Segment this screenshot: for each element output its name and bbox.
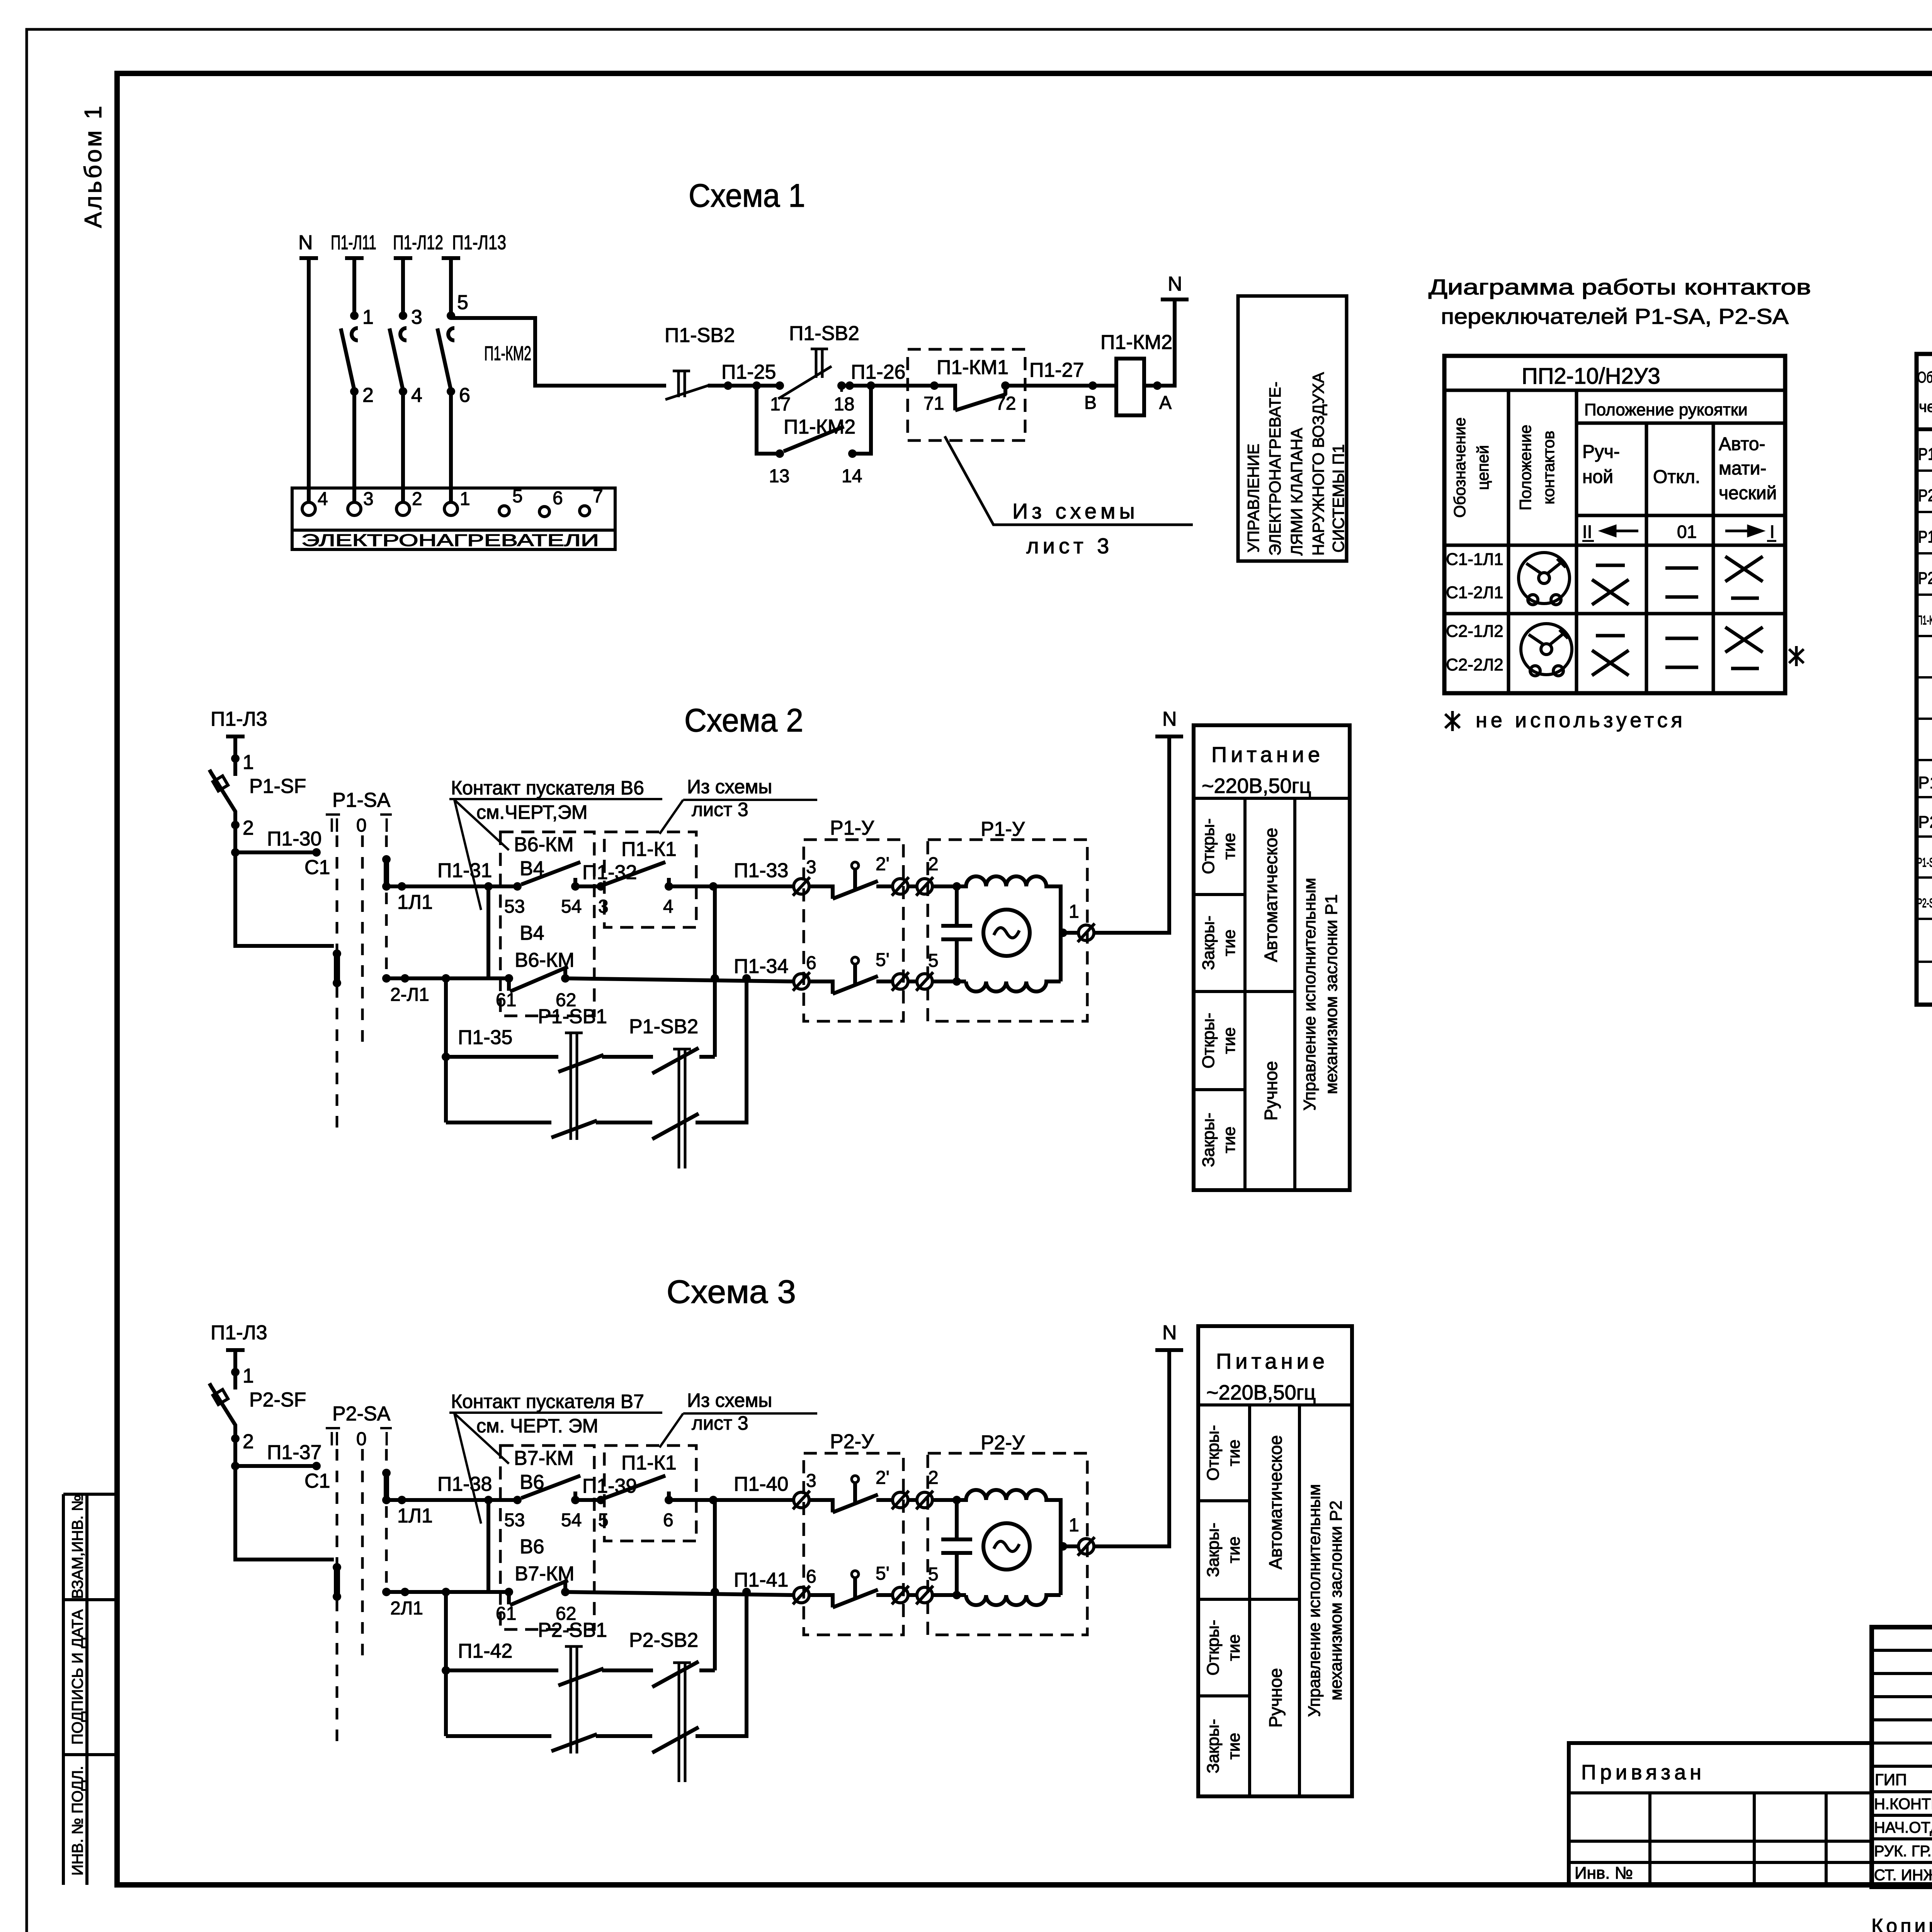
- svg-text:Р1-SA: Р1-SA: [1918, 445, 1932, 464]
- svg-text:A: A: [1159, 393, 1172, 413]
- dashed box П1-КМ1: [908, 349, 1025, 440]
- svg-text:6: 6: [806, 953, 816, 973]
- svg-text:1: 1: [460, 489, 470, 509]
- svg-text:В6-КМ: В6-КМ: [514, 833, 574, 856]
- svg-text:6: 6: [806, 1566, 816, 1587]
- svg-text:Привязан: Привязан: [1581, 1761, 1705, 1784]
- svg-text:лист 3: лист 3: [692, 1412, 748, 1434]
- svg-text:N: N: [298, 231, 313, 254]
- feeder П1-Л13 wire: [442, 258, 460, 316]
- svg-text:тие: тие: [1220, 1027, 1239, 1054]
- svg-text:Автоматическое: Автоматическое: [1265, 1435, 1286, 1570]
- svg-text:ПОДПИСЬ И ДАТА: ПОДПИСЬ И ДАТА: [69, 1609, 86, 1745]
- svg-text:Из схемы: Из схемы: [687, 776, 772, 798]
- svg-text:лист 3: лист 3: [1026, 534, 1113, 558]
- svg-text:13: 13: [769, 466, 789, 486]
- motor circle: [983, 910, 1030, 956]
- svg-text:3: 3: [411, 306, 422, 328]
- svg-text:Закры-: Закры-: [1204, 1719, 1223, 1773]
- svg-text:РУК. ГР.: РУК. ГР.: [1874, 1843, 1932, 1860]
- svg-text:2': 2': [876, 854, 889, 874]
- svg-text:Р2-У: Р2-У: [830, 1430, 874, 1453]
- svg-text:П1-Л3: П1-Л3: [211, 1321, 267, 1344]
- svg-text:17: 17: [770, 394, 791, 415]
- wire coil to N riser: [1144, 299, 1189, 386]
- привязан box: [1569, 1743, 1872, 1885]
- feeder terminal N top bar: [299, 258, 318, 502]
- svg-text:ГИП: ГИП: [1875, 1770, 1907, 1789]
- svg-text:P2-SB1,SB2: P2-SB1,SB2: [1917, 896, 1932, 910]
- svg-text:П1-33: П1-33: [734, 859, 788, 882]
- svg-text:1: 1: [1069, 901, 1079, 922]
- svg-text:П1-25: П1-25: [721, 361, 776, 383]
- svg-text:П1-38: П1-38: [437, 1473, 492, 1495]
- svg-text:В6: В6: [520, 1471, 544, 1493]
- limit pin circle lower: [852, 957, 859, 964]
- П1-КМ1 contact 71-72: [934, 386, 1006, 410]
- svg-text:П1-КМ2: П1-КМ2: [484, 342, 531, 365]
- wire ⊘1 to N riser: [1094, 736, 1183, 933]
- svg-text:П1-31: П1-31: [437, 859, 492, 882]
- svg-text:Схема 1: Схема 1: [689, 177, 805, 214]
- svg-text:В6-КМ: В6-КМ: [515, 949, 575, 971]
- svg-text:ИНВ. № ПОДЛ.: ИНВ. № ПОДЛ.: [69, 1766, 86, 1876]
- svg-text:Руч-: Руч-: [1582, 442, 1620, 462]
- svg-text:1: 1: [1069, 1515, 1079, 1536]
- contact В4 53-54: [521, 862, 580, 886]
- wire ⊘5' to ⊘5: [908, 980, 917, 983]
- svg-text:I: I: [384, 1429, 389, 1449]
- svg-text:Р2-SF: Р2-SF: [1918, 569, 1932, 588]
- svg-text:Копировал Завьялова: Копировал Завьялова: [1871, 1915, 1932, 1932]
- svg-text:цепей: цепей: [1474, 445, 1492, 490]
- svg-text:механизмом заслонки Р2: механизмом заслонки Р2: [1327, 1500, 1345, 1700]
- lower limit contact: [809, 964, 893, 994]
- svg-text:Питание: Питание: [1211, 742, 1324, 767]
- signature table grid: [1872, 1627, 1932, 1887]
- svg-text:Р1-У: Р1-У: [1918, 773, 1932, 792]
- svg-text:P2-SF: P2-SF: [249, 1389, 306, 1411]
- svg-text:Обозначение: Обозначение: [1451, 417, 1469, 518]
- svg-text:тие: тие: [1225, 1733, 1243, 1759]
- svg-text:~220В,50гц: ~220В,50гц: [1206, 1381, 1316, 1404]
- coil П1-КМ2: [1116, 359, 1144, 415]
- svg-text:П1-К1: П1-К1: [621, 1452, 677, 1474]
- svg-text:61: 61: [496, 1604, 516, 1624]
- breaker contact QF pole1: [341, 328, 358, 390]
- svg-text:2: 2: [928, 1468, 939, 1488]
- svg-text:С1-1Л1: С1-1Л1: [1446, 550, 1503, 569]
- svg-text:62: 62: [556, 990, 576, 1010]
- svg-text:Альбом 1: Альбом 1: [80, 104, 107, 228]
- svg-text:Откры-: Откры-: [1199, 818, 1218, 874]
- svg-text:P1-SB1,SB2: P1-SB1,SB2: [1917, 855, 1932, 869]
- svg-text:см. ЧЕРТ. ЭМ: см. ЧЕРТ. ЭМ: [476, 1415, 598, 1437]
- svg-text:6: 6: [663, 1510, 673, 1531]
- svg-text:П1-30: П1-30: [267, 828, 321, 850]
- wire: [596, 1121, 652, 1124]
- svg-text:II: II: [1582, 522, 1592, 542]
- contact state marks row1: [1592, 556, 1763, 605]
- svg-text:6: 6: [553, 488, 563, 509]
- pushbutton П1-SB2 no.2 (NC): [778, 349, 842, 399]
- dashed box limit switches: [804, 840, 903, 1021]
- wire pole2 down: [401, 391, 405, 502]
- wire 4 to limit box: [669, 884, 794, 888]
- svg-text:5: 5: [928, 951, 939, 971]
- svg-text:НАРУЖНОГО ВОЗДУХА: НАРУЖНОГО ВОЗДУХА: [1309, 372, 1327, 556]
- svg-text:0: 0: [356, 1429, 367, 1449]
- wire and П-30 run: [235, 825, 334, 946]
- svg-text:5: 5: [457, 291, 468, 314]
- svg-text:4: 4: [318, 489, 328, 509]
- svg-text:чение: чение: [1919, 398, 1932, 415]
- svg-text:Закры-: Закры-: [1199, 1112, 1218, 1167]
- svg-text:Схема 3: Схема 3: [667, 1274, 796, 1310]
- svg-text:лист 3: лист 3: [692, 799, 748, 820]
- svg-text:1: 1: [243, 751, 254, 774]
- svg-text:В4: В4: [520, 922, 544, 944]
- svg-text:2: 2: [362, 384, 374, 406]
- svg-text:мати-: мати-: [1719, 458, 1766, 479]
- svg-text:ной: ной: [1582, 467, 1613, 487]
- svg-text:53: 53: [504, 896, 525, 917]
- svg-text:II: II: [329, 815, 340, 836]
- svg-text:2-Л1: 2-Л1: [390, 985, 429, 1005]
- rotated col headers: [1451, 417, 1558, 518]
- svg-text:Закры-: Закры-: [1199, 915, 1218, 970]
- SB2 lower blade: [652, 1114, 699, 1139]
- svg-text:Откры-: Откры-: [1199, 1013, 1218, 1068]
- svg-text:P1-SF: P1-SF: [249, 775, 306, 798]
- svg-text:П1-КМ2: П1-КМ2: [784, 416, 855, 438]
- svg-text:Р1-У: Р1-У: [830, 817, 874, 839]
- svg-text:С2-1Л2: С2-1Л2: [1446, 622, 1503, 641]
- lower motor winding: [966, 981, 1061, 992]
- svg-text:1: 1: [362, 306, 374, 328]
- SB1 actuator: [565, 1033, 583, 1140]
- svg-text:71: 71: [923, 393, 944, 414]
- breaker contact pole2: [389, 328, 406, 390]
- svg-text:П1-Л3: П1-Л3: [211, 708, 267, 730]
- switch SA dashed pole II: [336, 835, 338, 1136]
- junction dots: [231, 754, 1067, 1061]
- svg-text:П1-Л13: П1-Л13: [452, 231, 506, 254]
- svg-text:С1-2Л1: С1-2Л1: [1446, 583, 1503, 602]
- callout line из схемы лист 3: [945, 436, 1193, 525]
- svg-text:контактов: контактов: [1539, 431, 1558, 505]
- wire ⊘5 into motor box: [932, 980, 966, 983]
- svg-text:N: N: [1162, 708, 1177, 730]
- svg-text:14: 14: [842, 466, 862, 486]
- svg-text:Р1-SF: Р1-SF: [1918, 527, 1932, 546]
- svg-text:тие: тие: [1225, 1536, 1243, 1563]
- svg-text:Р2-SA: Р2-SA: [1918, 486, 1932, 505]
- svg-text:П1-К1: П1-К1: [621, 838, 677, 861]
- svg-text:П1-35: П1-35: [458, 1026, 512, 1049]
- svg-text:I: I: [384, 815, 389, 836]
- svg-text:Н.КОНТР.: Н.КОНТР.: [1874, 1796, 1932, 1813]
- wire to ⊘1: [1061, 931, 1078, 935]
- svg-text:4: 4: [663, 896, 673, 917]
- svg-text:Из схемы: Из схемы: [687, 1389, 772, 1411]
- upper motor winding: [957, 876, 1061, 981]
- svg-text:54: 54: [561, 1510, 582, 1531]
- svg-text:П1-42: П1-42: [458, 1640, 512, 1662]
- svg-text:П1-34: П1-34: [734, 955, 788, 978]
- breaker contact pole3: [437, 328, 454, 390]
- motor tilde: [994, 928, 1019, 938]
- svg-text:1Л1: 1Л1: [397, 891, 433, 913]
- svg-text:П1-41: П1-41: [734, 1569, 788, 1591]
- feeder П1-Л3 terminal: [226, 736, 245, 759]
- feeder П1-Л12 wire: [394, 258, 412, 313]
- svg-text:5': 5': [876, 1563, 889, 1584]
- svg-text:С1: С1: [304, 1470, 330, 1492]
- svg-text:СИСТЕМЫ П1: СИСТЕМЫ П1: [1329, 444, 1347, 553]
- svg-text:тие: тие: [1220, 929, 1239, 956]
- svg-text:Положение: Положение: [1516, 425, 1534, 510]
- svg-text:ЭЛЕКТРОНАГРЕВАТЕЛИ: ЭЛЕКТРОНАГРЕВАТЕЛИ: [301, 531, 599, 550]
- svg-text:В7-КМ: В7-КМ: [514, 1447, 574, 1469]
- svg-text:II: II: [329, 1429, 340, 1449]
- svg-text:2: 2: [243, 817, 254, 839]
- star footnote mark beside table: [1789, 646, 1804, 666]
- wire 54 to К1: [575, 884, 601, 888]
- svg-text:ЛЯМИ КЛАПАНА: ЛЯМИ КЛАПАНА: [1287, 428, 1306, 556]
- svg-text:С2-2Л2: С2-2Л2: [1446, 655, 1503, 674]
- svg-text:Из схемы: Из схемы: [1012, 499, 1139, 523]
- svg-text:Закры-: Закры-: [1204, 1522, 1223, 1577]
- svg-text:П1-КМ2: П1-КМ2: [1100, 331, 1172, 354]
- wire ⊘3 to limit contact: [809, 869, 893, 899]
- svg-text:0: 0: [356, 815, 367, 836]
- svg-text:3: 3: [363, 489, 374, 509]
- svg-text:2: 2: [412, 489, 422, 509]
- svg-text:Откры-: Откры-: [1204, 1620, 1223, 1675]
- П-35 wire: [446, 1055, 558, 1059]
- svg-text:Ручное: Ручное: [1265, 1668, 1286, 1728]
- svg-text:3: 3: [806, 1471, 816, 1491]
- wire segment to contact 17: [708, 384, 780, 388]
- svg-text:5: 5: [598, 1510, 609, 1531]
- svg-text:1: 1: [243, 1365, 254, 1387]
- svg-text:П1-39: П1-39: [582, 1475, 637, 1497]
- svg-text:В4: В4: [520, 857, 544, 880]
- svg-text:P1-SB2: P1-SB2: [629, 1015, 698, 1038]
- wire segment 18 to КМ1 box: [842, 384, 934, 388]
- svg-text:01: 01: [1677, 522, 1697, 542]
- svg-text:1Л1: 1Л1: [397, 1505, 433, 1527]
- svg-text:Автоматическое: Автоматическое: [1261, 828, 1281, 962]
- SA closed contact bar: [334, 952, 340, 985]
- svg-text:N: N: [1168, 273, 1182, 295]
- svg-text:7: 7: [593, 486, 603, 507]
- svg-text:Контакт пускателя В6: Контакт пускателя В6: [451, 777, 644, 799]
- dashed box В-КМ: [500, 832, 594, 1016]
- svg-text:П1-Л12: П1-Л12: [393, 231, 443, 254]
- svg-text:Обозна-: Обозна-: [1917, 369, 1932, 386]
- svg-text:С1: С1: [304, 856, 330, 879]
- svg-text:СТ. ИНЖ.: СТ. ИНЖ.: [1874, 1867, 1932, 1884]
- svg-text:72: 72: [995, 393, 1016, 414]
- svg-text:2Л1: 2Л1: [390, 1598, 423, 1619]
- svg-text:5': 5': [876, 950, 889, 970]
- svg-text:P2-SB2: P2-SB2: [629, 1629, 698, 1651]
- svg-text:P1-SA: P1-SA: [332, 789, 391, 811]
- svg-text:П1-SB2: П1-SB2: [665, 324, 735, 347]
- svg-text:НАЧ.ОТД.: НАЧ.ОТД.: [1874, 1819, 1932, 1836]
- svg-text:не используется: не используется: [1476, 709, 1686, 732]
- svg-text:53: 53: [504, 1510, 525, 1531]
- svg-text:ческий: ческий: [1719, 483, 1777, 503]
- svg-text:Положение рукоятки: Положение рукоятки: [1584, 400, 1748, 419]
- svg-text:2: 2: [243, 1430, 254, 1453]
- pushbutton SB1 upper blade: [558, 1055, 604, 1072]
- svg-text:П1-КМ1: П1-КМ1: [937, 356, 1009, 379]
- svg-text:ПП2-10/Н2У3: ПП2-10/Н2У3: [1522, 364, 1660, 389]
- svg-text:П1-27: П1-27: [1029, 359, 1084, 381]
- svg-text:B: B: [1084, 393, 1097, 413]
- svg-text:P2-SA: P2-SA: [332, 1403, 391, 1425]
- svg-text:В7-КМ: В7-КМ: [515, 1563, 575, 1585]
- contact В6-КМ 61-62: [509, 967, 568, 992]
- breaker P-SF blade: [209, 770, 235, 825]
- svg-text:тие: тие: [1220, 833, 1239, 859]
- circuit row labels: [1446, 550, 1503, 674]
- svg-text:Р2-У: Р2-У: [981, 1432, 1025, 1454]
- signature table texts: [1874, 1770, 1932, 1884]
- lower wire 2Л1: [386, 976, 509, 980]
- svg-text:см.ЧЕРТ,ЭМ: см.ЧЕРТ,ЭМ: [476, 801, 588, 823]
- upper main wire 1Л1: [386, 884, 517, 888]
- right vertical link: [713, 886, 717, 1057]
- svg-text:Авто-: Авто-: [1719, 434, 1765, 454]
- svg-text:тие: тие: [1225, 1439, 1243, 1466]
- svg-text:Схема 2: Схема 2: [684, 702, 803, 738]
- svg-text:54: 54: [561, 896, 582, 917]
- svg-text:4: 4: [411, 384, 422, 406]
- SA dashed pole I: [385, 835, 388, 978]
- SA pole I tick: [384, 859, 389, 886]
- dashed box motor: [928, 840, 1087, 1021]
- schema 3 geometry reuse: [209, 1350, 1183, 1782]
- heater terminal strip: [292, 488, 615, 549]
- wire 72 to coil: [1005, 384, 1116, 388]
- branch wire from dot5 to main line: [451, 318, 666, 386]
- svg-text:В6: В6: [520, 1536, 544, 1558]
- svg-text:Ручное: Ручное: [1261, 1061, 1281, 1121]
- svg-text:Контакт пускателя В7: Контакт пускателя В7: [451, 1391, 644, 1412]
- svg-text:П1-37: П1-37: [267, 1441, 321, 1464]
- left margin stamp column: [63, 1494, 117, 1885]
- svg-text:П1-КМ2,SB2: П1-КМ2,SB2: [1917, 613, 1932, 627]
- wire to right vertical: [696, 978, 747, 1122]
- svg-text:ВЗАМ,ИНВ. №: ВЗАМ,ИНВ. №: [69, 1495, 86, 1599]
- wire ⊘2 into motor box: [932, 884, 957, 888]
- SB2 actuator: [673, 1049, 691, 1168]
- svg-text:тие: тие: [1225, 1634, 1243, 1661]
- wire pole1 down: [352, 391, 356, 502]
- svg-text:6: 6: [459, 384, 470, 406]
- pushbutton П1-SB2 no.1: [665, 371, 710, 400]
- svg-text:18: 18: [834, 394, 854, 415]
- svg-text:2': 2': [876, 1468, 889, 1488]
- svg-text:Питание: Питание: [1216, 1349, 1328, 1373]
- svg-text:3: 3: [806, 857, 816, 878]
- svg-text:I: I: [1770, 522, 1775, 542]
- svg-text:П1-26: П1-26: [851, 361, 905, 383]
- wire to breaker: [233, 759, 237, 776]
- svg-text:Откл.: Откл.: [1653, 467, 1700, 487]
- svg-text:тие: тие: [1220, 1126, 1239, 1153]
- svg-text:Р2-У: Р2-У: [1918, 813, 1932, 832]
- svg-text:61: 61: [496, 990, 516, 1010]
- svg-text:Управление исполнительным: Управление исполнительным: [1300, 878, 1319, 1111]
- switch rosette row1: [1519, 553, 1570, 605]
- svg-text:Р1-У: Р1-У: [981, 818, 1025, 840]
- designator column: [1917, 445, 1932, 910]
- control caption box schema1: [1238, 296, 1347, 561]
- svg-text:Инв. №: Инв. №: [1575, 1864, 1633, 1883]
- limit pin circle upper: [852, 862, 859, 869]
- schema 2 labels: [211, 708, 1025, 1049]
- feeder П1-Л11 wire: [345, 258, 364, 313]
- dashed box П1-К1: [604, 832, 696, 927]
- svg-text:62: 62: [556, 1604, 576, 1624]
- svg-text:П1-Л11: П1-Л11: [331, 231, 376, 254]
- SB1 lower blade: [551, 1121, 597, 1138]
- svg-text:УПРАВЛЕНИЕ: УПРАВЛЕНИЕ: [1244, 444, 1262, 553]
- svg-text:N: N: [1162, 1321, 1177, 1344]
- junction dots schema1: [350, 311, 359, 320]
- svg-text:2: 2: [928, 854, 939, 874]
- svg-text:Откры-: Откры-: [1204, 1425, 1223, 1481]
- parallel branch with П1-КМ2 aux contact 13-14: [757, 386, 871, 454]
- terminal circles with slash: [793, 877, 1095, 991]
- pushbutton SB2 upper blade (NC): [652, 1048, 715, 1073]
- footnote: [1445, 711, 1460, 731]
- svg-text:5: 5: [928, 1564, 939, 1585]
- wire SB1 to SB2: [602, 1055, 653, 1059]
- svg-text:Диаграмма работы контактов: Диаграмма работы контактов: [1429, 275, 1811, 299]
- svg-text:Управление исполнительным: Управление исполнительным: [1305, 1484, 1324, 1717]
- svg-text:П1-40: П1-40: [734, 1473, 788, 1495]
- svg-text:П1-SB2: П1-SB2: [789, 322, 859, 345]
- svg-text:5: 5: [512, 486, 523, 507]
- contact П1-К1 3-4: [605, 862, 669, 886]
- wire pole3 down: [449, 391, 453, 502]
- branch vertical to lower wire: [486, 886, 490, 978]
- svg-text:3: 3: [598, 896, 609, 917]
- contact state marks row2: [1592, 627, 1763, 675]
- svg-text:переключателей Р1-SA, Р2-SA: переключателей Р1-SA, Р2-SA: [1441, 304, 1789, 328]
- arrow row: [1582, 522, 1775, 542]
- capacitor: [941, 886, 972, 981]
- lower wire continue: [565, 978, 794, 981]
- SA dashed pole 0: [361, 835, 364, 1043]
- svg-text:механизмом заслонки Р1: механизмом заслонки Р1: [1322, 894, 1341, 1094]
- switch rosette row2: [1521, 624, 1572, 676]
- SB chain left vertical: [444, 978, 448, 1122]
- svg-text:~220В,50гц: ~220В,50гц: [1202, 774, 1311, 798]
- svg-text:П1-32: П1-32: [582, 861, 637, 884]
- svg-text:ЭЛЕКТРОНАГРЕВАТЕ-: ЭЛЕКТРОНАГРЕВАТЕ-: [1266, 382, 1284, 556]
- bottom chain wire: [446, 1121, 551, 1124]
- wire ⊘2' to ⊘2: [908, 884, 917, 888]
